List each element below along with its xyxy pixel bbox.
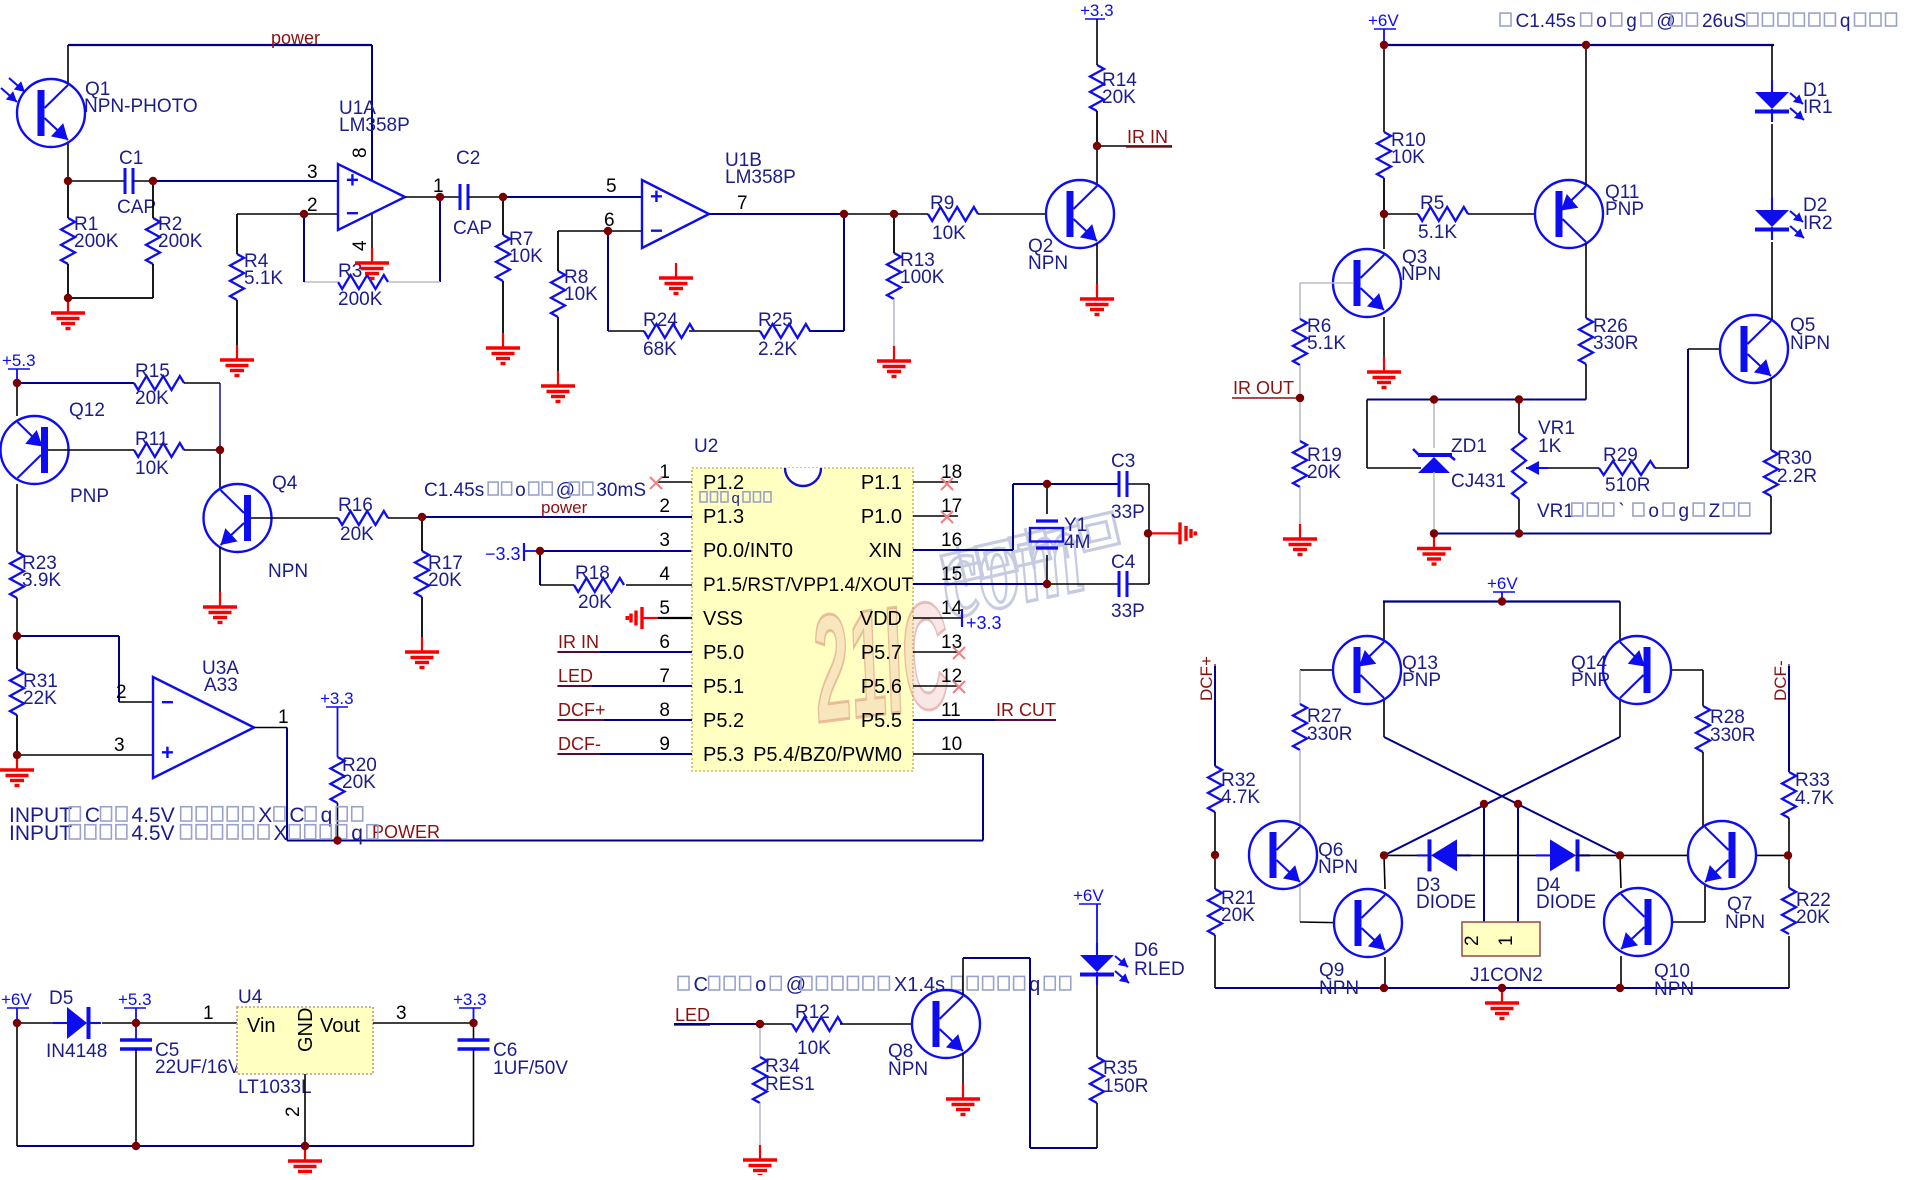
svg-text:ZD1: ZD1 — [1451, 436, 1487, 457]
svg-text:P0.0/INT0: P0.0/INT0 — [703, 540, 793, 562]
svg-text:power: power — [271, 28, 320, 48]
svg-text:DIODE: DIODE — [1416, 892, 1476, 913]
svg-text:g: g — [1679, 501, 1690, 522]
svg-text:g: g — [1626, 11, 1637, 32]
svg-text:C: C — [694, 974, 708, 996]
svg-text:Z: Z — [1709, 501, 1721, 522]
svg-text:IR1: IR1 — [1803, 97, 1833, 118]
svg-text:3: 3 — [396, 1003, 407, 1024]
svg-text:+5.3: +5.3 — [118, 990, 152, 1009]
svg-text:1: 1 — [278, 707, 289, 728]
svg-text:q: q — [732, 490, 740, 507]
svg-text:VSS: VSS — [703, 608, 743, 630]
svg-text:q: q — [1840, 11, 1851, 32]
svg-text:D6: D6 — [1134, 940, 1158, 961]
svg-text:o: o — [755, 974, 766, 996]
svg-text:150R: 150R — [1103, 1076, 1148, 1097]
svg-text:Q12: Q12 — [69, 400, 105, 421]
svg-text:2.2R: 2.2R — [1777, 466, 1817, 487]
svg-text:XIN: XIN — [869, 540, 902, 562]
svg-text:C2: C2 — [456, 148, 480, 169]
svg-text:@: @ — [556, 480, 575, 501]
svg-text:RES1: RES1 — [765, 1074, 815, 1095]
svg-text:X: X — [274, 822, 288, 845]
svg-text:200K: 200K — [338, 289, 383, 310]
svg-text:7: 7 — [659, 666, 670, 687]
svg-text:510R: 510R — [1605, 475, 1650, 496]
svg-text:q: q — [321, 804, 333, 827]
svg-text:+3.3: +3.3 — [966, 613, 1002, 633]
svg-text:200K: 200K — [74, 231, 119, 252]
svg-text:20K: 20K — [340, 524, 374, 545]
svg-text:10K: 10K — [932, 223, 966, 244]
svg-text:NPN-PHOTO: NPN-PHOTO — [84, 96, 198, 117]
svg-text:q: q — [351, 822, 363, 845]
svg-text:C1.45s: C1.45s — [424, 480, 484, 501]
svg-text:1K: 1K — [1538, 436, 1562, 457]
svg-text:5.1K: 5.1K — [1307, 333, 1346, 354]
svg-text:4M: 4M — [1064, 532, 1090, 553]
svg-text:NPN: NPN — [1790, 333, 1830, 354]
svg-text:10K: 10K — [509, 246, 543, 267]
svg-text:5: 5 — [659, 598, 670, 619]
svg-text:@: @ — [1656, 11, 1675, 32]
svg-text:R24: R24 — [643, 310, 678, 331]
svg-text:−: − — [346, 201, 359, 226]
svg-text:R16: R16 — [338, 495, 373, 516]
svg-text:100K: 100K — [900, 267, 945, 288]
svg-text:20K: 20K — [1796, 907, 1830, 928]
svg-text:330R: 330R — [1710, 725, 1755, 746]
svg-text:NPN: NPN — [268, 561, 308, 582]
svg-text:5.1K: 5.1K — [244, 268, 283, 289]
svg-text:NPN: NPN — [1028, 253, 1068, 274]
svg-text:10K: 10K — [564, 284, 598, 305]
svg-text:LT1033L: LT1033L — [238, 1077, 312, 1098]
svg-text:Vin: Vin — [247, 1015, 276, 1037]
svg-text:15: 15 — [941, 564, 962, 585]
svg-text:+6V: +6V — [1073, 886, 1104, 905]
svg-text:P5.5: P5.5 — [861, 710, 902, 732]
svg-text:DCF+: DCF+ — [1197, 656, 1216, 701]
svg-text:NPN: NPN — [1318, 857, 1358, 878]
svg-text:IR CUT: IR CUT — [996, 700, 1056, 720]
svg-text:7: 7 — [737, 193, 748, 214]
svg-text:LM358P: LM358P — [339, 115, 410, 136]
svg-text:PNP: PNP — [70, 486, 109, 507]
svg-text:+6V: +6V — [1487, 574, 1518, 593]
svg-text:PNP: PNP — [1605, 199, 1644, 220]
svg-text:11: 11 — [941, 700, 961, 721]
svg-text:4.7K: 4.7K — [1795, 788, 1834, 809]
svg-text:U4: U4 — [238, 987, 263, 1008]
svg-text:C1: C1 — [119, 148, 143, 169]
svg-text:P1.1: P1.1 — [861, 472, 902, 494]
svg-text:CAP: CAP — [453, 218, 492, 239]
svg-text:P5.3: P5.3 — [703, 744, 744, 766]
svg-text:3: 3 — [307, 162, 318, 183]
svg-text:200K: 200K — [158, 231, 203, 252]
svg-text:NPN: NPN — [1654, 979, 1694, 1000]
svg-text:D5: D5 — [49, 988, 73, 1009]
svg-text:P5.6: P5.6 — [861, 676, 902, 698]
svg-text:2: 2 — [283, 1106, 304, 1117]
svg-text:DCF-: DCF- — [558, 734, 601, 754]
svg-text:20K: 20K — [428, 570, 462, 591]
svg-text:−3.3: −3.3 — [485, 544, 521, 564]
svg-text:IN4148: IN4148 — [46, 1041, 107, 1062]
svg-text:P5.7: P5.7 — [861, 642, 902, 664]
svg-text:+: + — [346, 168, 359, 193]
svg-text:P1.0: P1.0 — [861, 506, 902, 528]
svg-text:o: o — [515, 480, 526, 501]
svg-text:20K: 20K — [1221, 905, 1255, 926]
svg-text:@: @ — [786, 974, 806, 996]
svg-text:2: 2 — [116, 682, 127, 703]
svg-text:1UF/50V: 1UF/50V — [493, 1058, 568, 1079]
svg-text:NPN: NPN — [1401, 264, 1441, 285]
svg-text:P5.0: P5.0 — [703, 642, 744, 664]
svg-text:33P: 33P — [1111, 502, 1145, 523]
svg-text:LM358P: LM358P — [725, 167, 796, 188]
svg-text:26uS: 26uS — [1702, 11, 1746, 32]
svg-text:8: 8 — [350, 147, 371, 158]
svg-text:30mS: 30mS — [596, 480, 646, 501]
svg-text:VDD: VDD — [860, 608, 902, 630]
svg-text:10K: 10K — [1391, 147, 1425, 168]
svg-text:3: 3 — [659, 530, 670, 551]
svg-text:4: 4 — [350, 240, 371, 251]
svg-text:P5.2: P5.2 — [703, 710, 744, 732]
svg-text:NPN: NPN — [888, 1059, 928, 1080]
svg-text:14: 14 — [941, 598, 963, 619]
svg-text:R29: R29 — [1603, 445, 1638, 466]
svg-text:22UF/16V: 22UF/16V — [155, 1057, 241, 1078]
svg-text:9: 9 — [659, 734, 670, 755]
svg-text:P5.4/BZ0/PWM0: P5.4/BZ0/PWM0 — [753, 744, 902, 766]
svg-text:R5: R5 — [1420, 193, 1444, 214]
svg-text:10: 10 — [941, 734, 962, 755]
svg-text:20K: 20K — [342, 772, 376, 793]
svg-text:C3: C3 — [1111, 451, 1135, 472]
svg-text:P1.5/RST/VPP1.4/XOUT: P1.5/RST/VPP1.4/XOUT — [703, 575, 914, 596]
svg-text:GND: GND — [295, 1008, 317, 1052]
svg-text:20K: 20K — [578, 592, 612, 613]
svg-text:R18: R18 — [575, 563, 610, 584]
svg-text:+: + — [650, 184, 663, 209]
svg-text:22K: 22K — [23, 688, 57, 709]
svg-text:−: − — [161, 689, 174, 714]
svg-text:o: o — [1596, 11, 1607, 32]
svg-text:6: 6 — [659, 632, 670, 653]
svg-text:IR2: IR2 — [1803, 213, 1833, 234]
svg-text:3.9K: 3.9K — [22, 570, 61, 591]
svg-text:A33: A33 — [204, 675, 238, 696]
svg-text:+6V: +6V — [1, 990, 32, 1009]
svg-text:LED: LED — [558, 666, 593, 686]
svg-text:DCF-: DCF- — [1771, 660, 1790, 701]
svg-text:NPN: NPN — [1319, 978, 1359, 999]
svg-text:R15: R15 — [135, 361, 170, 382]
svg-text:P5.1: P5.1 — [703, 676, 744, 698]
svg-text:C1.45s: C1.45s — [1516, 11, 1576, 32]
svg-text:4.7K: 4.7K — [1221, 787, 1260, 808]
svg-text:+: + — [161, 740, 174, 765]
svg-text:PNP: PNP — [1571, 670, 1610, 691]
svg-text:+3.3: +3.3 — [1080, 1, 1114, 20]
svg-text:1: 1 — [659, 462, 670, 483]
svg-text:LED: LED — [675, 1005, 710, 1025]
svg-text:330R: 330R — [1593, 333, 1638, 354]
svg-text:`: ` — [1618, 501, 1624, 522]
svg-text:16: 16 — [941, 530, 962, 551]
svg-text:IR IN: IR IN — [1127, 127, 1168, 147]
svg-text:CJ431: CJ431 — [1451, 471, 1506, 492]
svg-text:Q4: Q4 — [272, 473, 298, 494]
svg-text:+3.3: +3.3 — [320, 689, 354, 708]
svg-text:330R: 330R — [1307, 724, 1352, 745]
svg-text:2.2K: 2.2K — [758, 339, 797, 360]
svg-text:RLED: RLED — [1134, 959, 1185, 980]
svg-text:3: 3 — [114, 735, 125, 756]
svg-text:2: 2 — [1462, 935, 1483, 946]
svg-text:5.1K: 5.1K — [1418, 222, 1457, 243]
svg-text:P1.3: P1.3 — [703, 506, 744, 528]
svg-text:20K: 20K — [1102, 87, 1136, 108]
svg-text:2: 2 — [659, 496, 670, 517]
svg-text:IR IN: IR IN — [558, 632, 599, 652]
svg-text:5: 5 — [606, 176, 617, 197]
svg-text:4.5V: 4.5V — [131, 822, 174, 845]
svg-text:20K: 20K — [135, 388, 169, 409]
svg-text:INPUT: INPUT — [9, 822, 72, 845]
svg-text:C4: C4 — [1111, 552, 1136, 573]
svg-text:8: 8 — [659, 700, 670, 721]
svg-text:VR1: VR1 — [1537, 501, 1574, 522]
svg-text:20K: 20K — [1307, 462, 1341, 483]
svg-text:R12: R12 — [795, 1002, 830, 1023]
svg-text:1: 1 — [203, 1003, 214, 1024]
svg-text:4: 4 — [659, 564, 670, 585]
svg-text:+3.3: +3.3 — [453, 990, 487, 1009]
svg-text:PNP: PNP — [1402, 670, 1441, 691]
svg-text:C: C — [289, 804, 304, 827]
svg-text:12: 12 — [941, 666, 962, 687]
svg-text:33P: 33P — [1111, 601, 1145, 622]
svg-text:C: C — [85, 804, 100, 827]
svg-text:R11: R11 — [135, 429, 168, 450]
svg-text:DIODE: DIODE — [1536, 892, 1596, 913]
svg-text:IR OUT: IR OUT — [1233, 378, 1294, 398]
svg-text:R9: R9 — [930, 193, 954, 214]
svg-text:POWER: POWER — [372, 822, 440, 842]
svg-text:R25: R25 — [758, 310, 793, 331]
svg-text:X: X — [258, 804, 272, 827]
svg-text:+6V: +6V — [1368, 11, 1399, 30]
svg-text:NPN: NPN — [1725, 912, 1765, 933]
svg-text:13: 13 — [941, 632, 962, 653]
svg-text:DCF+: DCF+ — [558, 700, 606, 720]
svg-text:68K: 68K — [643, 339, 677, 360]
svg-text:J1CON2: J1CON2 — [1470, 965, 1543, 986]
svg-text:U2: U2 — [694, 436, 718, 457]
svg-text:o: o — [1648, 501, 1659, 522]
svg-text:CAP: CAP — [117, 197, 156, 218]
svg-text:2: 2 — [307, 195, 318, 216]
svg-text:10K: 10K — [797, 1038, 831, 1059]
svg-text:10K: 10K — [135, 458, 169, 479]
svg-text:1: 1 — [1496, 935, 1517, 946]
svg-text:+5.3: +5.3 — [2, 351, 36, 370]
svg-text:Vout: Vout — [320, 1015, 360, 1037]
svg-text:−: − — [650, 218, 663, 243]
